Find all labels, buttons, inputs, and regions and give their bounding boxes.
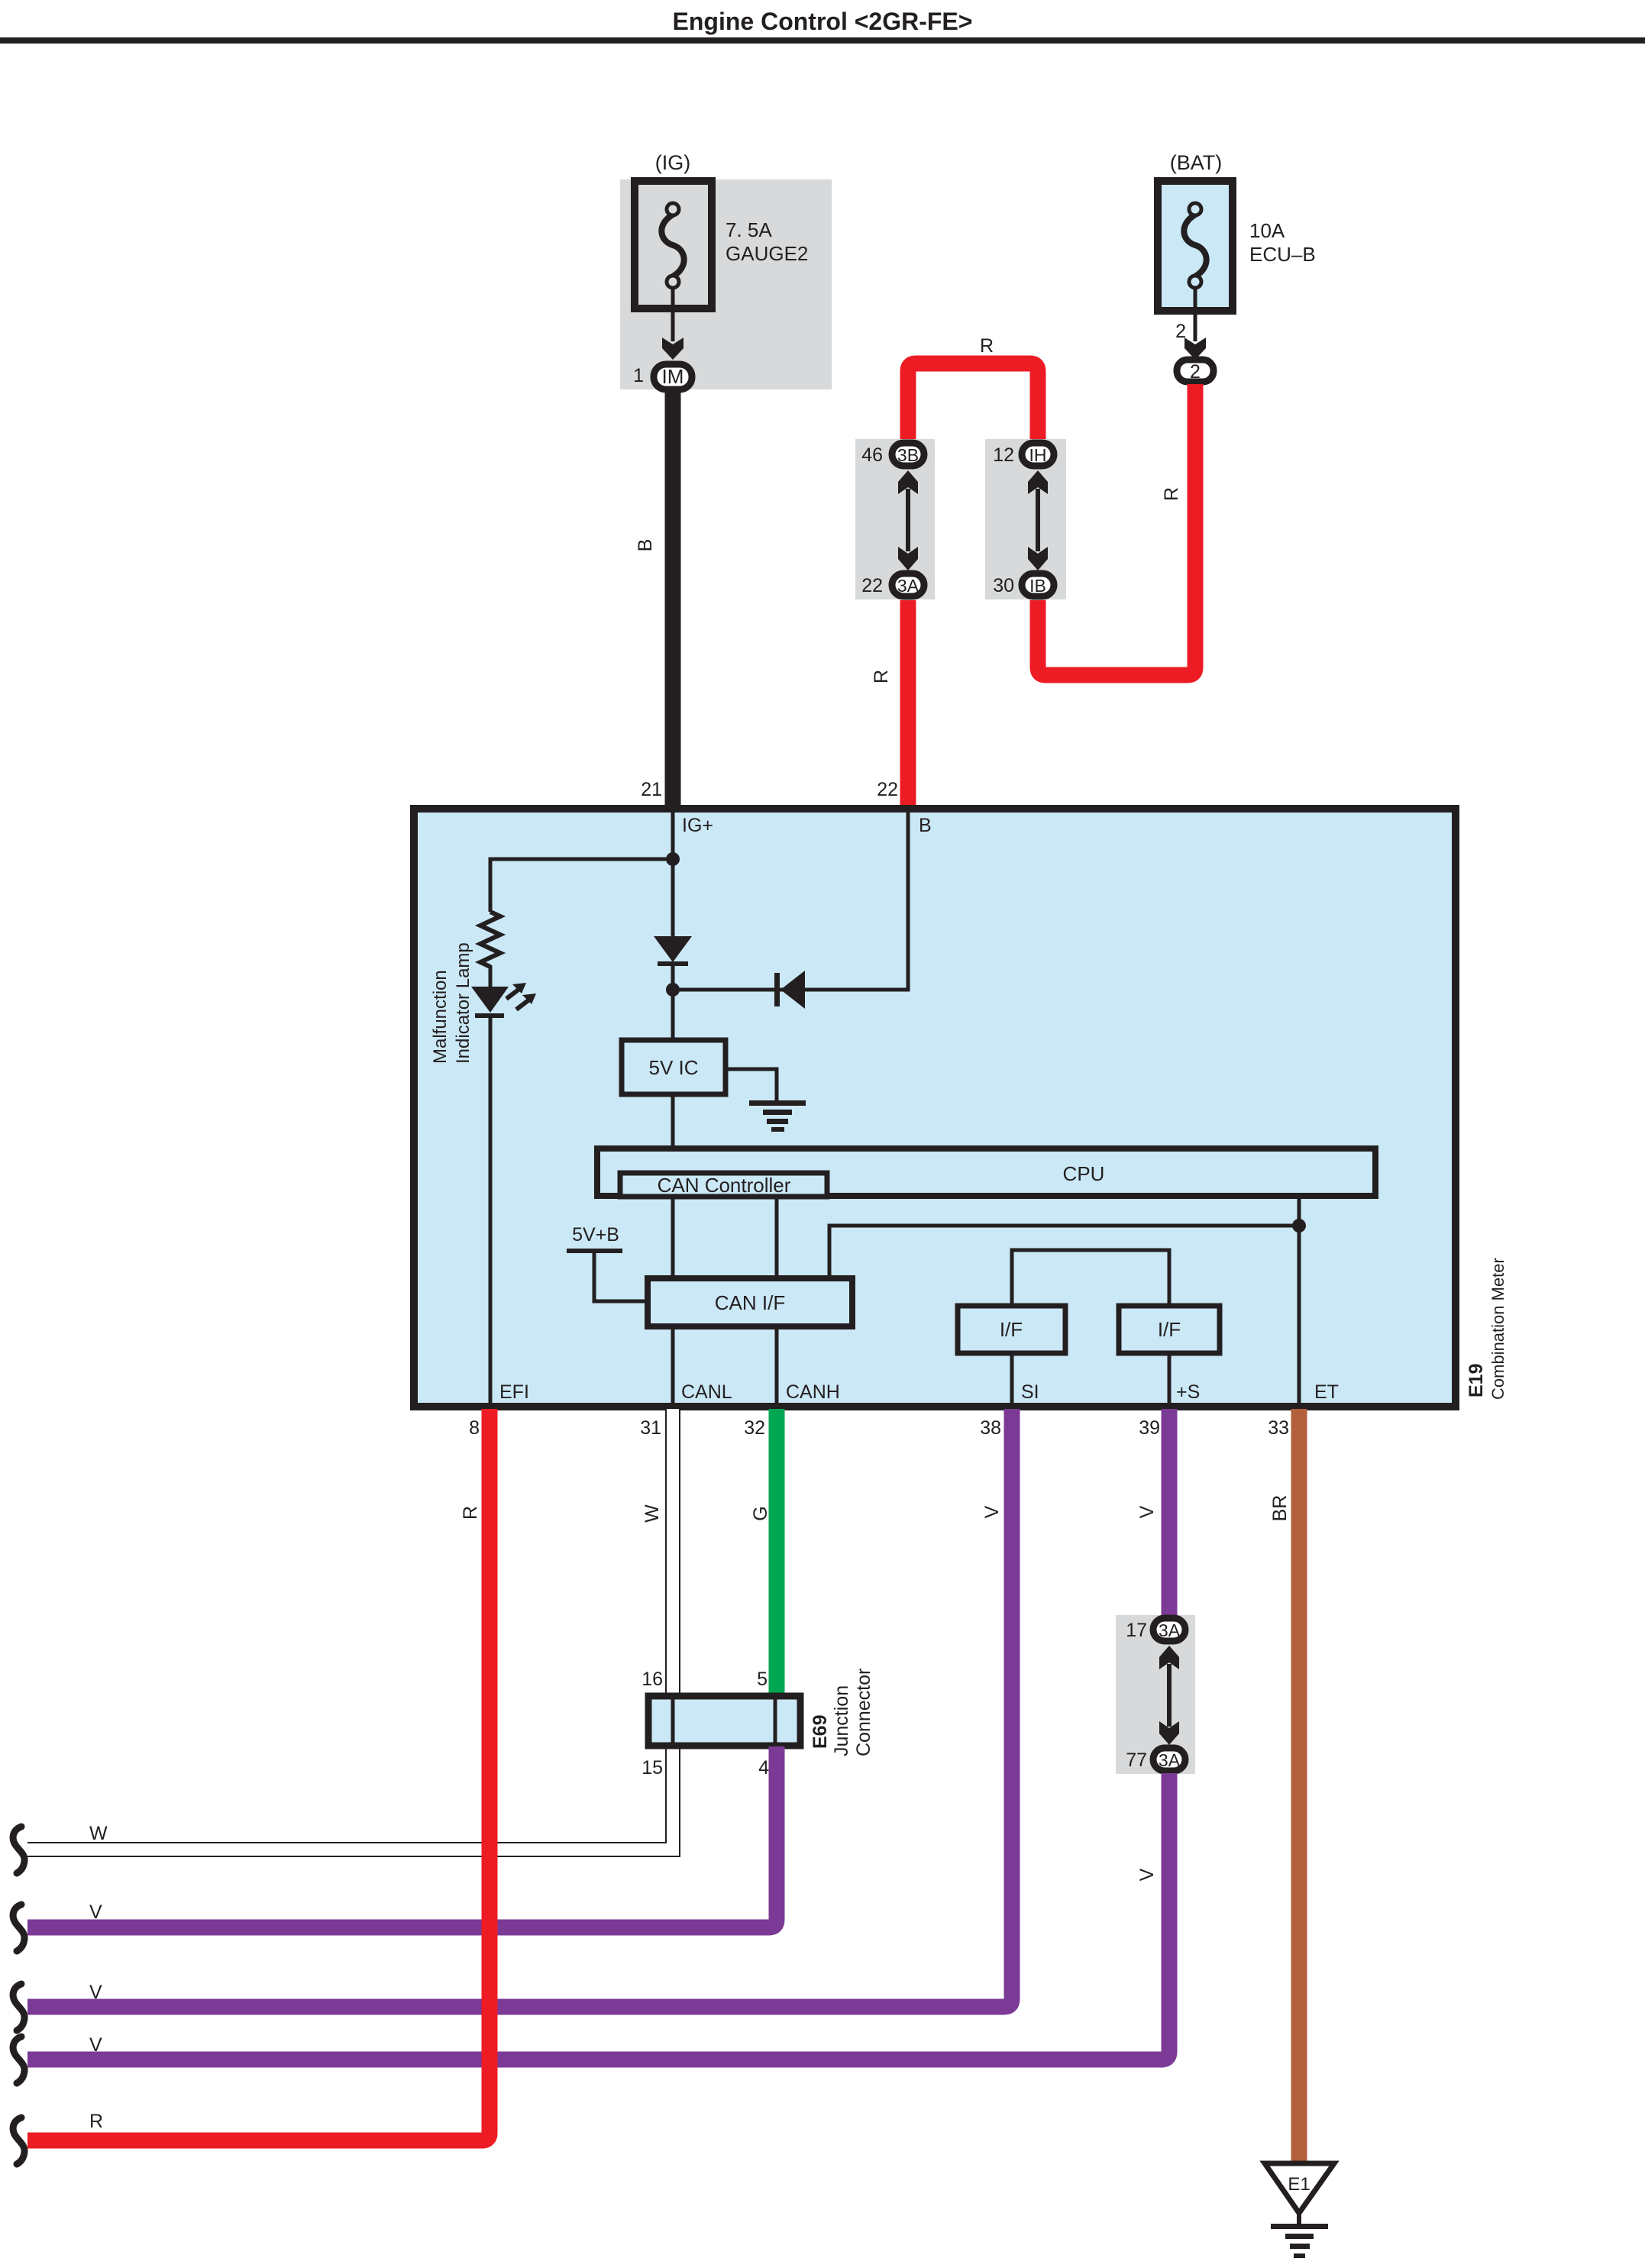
internal wire ET vertical	[1298, 1196, 1301, 1405]
wire V from 3A lower down and left	[27, 1773, 1169, 2060]
svg-text:22: 22	[877, 779, 898, 800]
svg-text:B: B	[635, 539, 656, 552]
wire color label BR	[1269, 1495, 1291, 1522]
svg-text:E69: E69	[810, 1715, 831, 1749]
resistor (MIL)	[480, 912, 500, 967]
wire D1 to node	[671, 962, 675, 1042]
pin 12 label	[993, 444, 1014, 466]
svg-text:3A: 3A	[1159, 1620, 1181, 1640]
label 5V+B	[572, 1224, 619, 1245]
wire V from pin 39 to connector 3A	[1162, 1409, 1178, 1616]
svg-text:22: 22	[861, 575, 883, 596]
I/F box left	[958, 1306, 1065, 1353]
svg-text:2: 2	[1175, 321, 1186, 342]
break symbol wire W	[13, 1827, 24, 1873]
svg-text:5V IC: 5V IC	[648, 1056, 698, 1079]
pin 46 label	[861, 444, 883, 466]
label Combination Meter	[1488, 1258, 1508, 1400]
svg-text:V: V	[1136, 1505, 1158, 1518]
connector oval 3A	[892, 573, 924, 596]
svg-text:7. 5A: 7. 5A	[726, 218, 772, 241]
svg-text:Combination Meter: Combination Meter	[1488, 1258, 1508, 1400]
svg-text:+S: +S	[1176, 1381, 1200, 1403]
svg-text:V: V	[89, 2034, 102, 2056]
ground E1 symbol	[1265, 2163, 1334, 2258]
arrow down above 3A	[898, 547, 918, 570]
wire from fuse GAUGE2 to connector IM	[671, 287, 675, 341]
fuse GAUGE2 box	[635, 181, 712, 309]
connector oval 2	[1177, 360, 1214, 383]
wire B (black) from IM to pin 21	[665, 388, 681, 811]
wire color label V (bottom 1)	[89, 1901, 102, 1923]
fuse ECU-B box	[1158, 181, 1233, 311]
connector block 3A/3A gray background	[1116, 1615, 1195, 1774]
break symbol wire V3	[13, 2037, 24, 2083]
connector designation E19	[1466, 1364, 1487, 1397]
svg-text:V: V	[1136, 1868, 1158, 1881]
svg-text:Junction: Junction	[831, 1685, 852, 1756]
svg-text:E1: E1	[1288, 2174, 1310, 2195]
svg-text:5V+B: 5V+B	[572, 1224, 619, 1245]
title underline rule	[0, 37, 1645, 44]
svg-text:5: 5	[757, 1669, 768, 1690]
svg-text:77: 77	[1126, 1749, 1147, 1771]
wire CANH below CAN I/F	[775, 1326, 779, 1405]
wire color label R (bottom)	[89, 2111, 103, 2132]
svg-text:GAUGE2: GAUGE2	[726, 242, 808, 265]
wire color label V (bottom 2)	[89, 1982, 102, 2003]
svg-text:R: R	[980, 335, 994, 357]
bridge wire over I/F boxes	[1012, 1250, 1169, 1306]
wire color label W (pin 31)	[642, 1504, 663, 1523]
wire resistor to LED	[489, 965, 493, 988]
svg-text:R: R	[871, 670, 892, 683]
wire color label V (bottom 3)	[89, 2034, 102, 2056]
pin 77 label	[1126, 1749, 1147, 1771]
wire color label R (top horizontal)	[980, 335, 994, 357]
wire CAN I/F to ET line	[829, 1226, 1299, 1275]
arrow up below 3B	[898, 470, 918, 494]
svg-text:31: 31	[640, 1417, 661, 1439]
wire color label W (bottom)	[89, 1823, 108, 1844]
connector oval 3A lower	[1153, 1748, 1185, 1771]
svg-text:46: 46	[861, 444, 883, 466]
LED malfunction indicator lamp	[471, 983, 536, 1018]
svg-text:8: 8	[469, 1417, 480, 1439]
wire 5V IC to CPU	[671, 1094, 675, 1149]
wire G from pin 32 to E69	[769, 1409, 785, 1697]
svg-text:CAN I/F: CAN I/F	[715, 1291, 785, 1314]
svg-text:12: 12	[993, 444, 1014, 466]
terminal name CANH	[786, 1381, 840, 1403]
terminal name B	[919, 815, 932, 836]
svg-text:ET: ET	[1314, 1381, 1339, 1403]
diode D2 on B line	[774, 971, 805, 1009]
internal wire IG+ vertical	[671, 813, 675, 938]
svg-text:4: 4	[758, 1757, 769, 1779]
wire color label V (pin 39)	[1136, 1505, 1158, 1518]
svg-text:CANH: CANH	[786, 1381, 840, 1403]
connector oval IM	[654, 364, 692, 389]
label Malfunction Indicator Lamp	[430, 942, 473, 1064]
wire color label R (pin 8)	[460, 1506, 481, 1520]
svg-text:CAN Controller: CAN Controller	[658, 1174, 791, 1197]
pin number 22	[877, 779, 898, 800]
svg-text:V: V	[89, 1901, 102, 1923]
svg-text:17: 17	[1126, 1620, 1147, 1641]
wire color label G (pin 32)	[750, 1506, 771, 1520]
wire R from 3A down to pin 22	[900, 600, 916, 811]
CPU box	[597, 1149, 1375, 1196]
wire W (white) from pin 31 through E69 down and left	[27, 1409, 673, 1850]
arrow down above 3A lower	[1159, 1721, 1179, 1745]
svg-text:IH: IH	[1029, 445, 1047, 465]
svg-text:16: 16	[642, 1669, 663, 1690]
wire V from E69 pin 4 down and left	[27, 1746, 777, 1927]
connector oval IH	[1022, 443, 1054, 466]
svg-text:1: 1	[633, 365, 644, 386]
connector oval 3A upper	[1153, 1618, 1185, 1641]
pin number 33	[1268, 1417, 1289, 1439]
connector oval 3B	[892, 443, 924, 466]
break symbol wire R	[13, 2118, 24, 2164]
svg-text:3B: 3B	[897, 445, 919, 465]
terminal name EFI	[499, 1381, 529, 1403]
junction connector E69 box	[648, 1695, 800, 1746]
wire color label R (3A vertical)	[871, 670, 892, 683]
label Junction Connector	[831, 1669, 874, 1756]
internal ground symbol	[749, 1100, 806, 1132]
svg-text:Engine Control <2GR-FE>: Engine Control <2GR-FE>	[673, 8, 973, 35]
pin 30 label	[993, 575, 1014, 596]
link line between IH and IB	[1036, 489, 1040, 551]
fuse ECU-B element symbol	[1184, 203, 1206, 288]
svg-text:W: W	[642, 1504, 663, 1523]
svg-text:CANL: CANL	[681, 1381, 732, 1403]
5V+B supply bar and wire	[567, 1249, 646, 1301]
wire CAN controller to CAN I/F (CANL)	[671, 1199, 675, 1278]
svg-text:15: 15	[642, 1757, 663, 1779]
svg-text:CPU: CPU	[1063, 1162, 1105, 1185]
node dot on IG+ line	[666, 852, 680, 866]
svg-text:38: 38	[980, 1417, 1001, 1439]
svg-text:3A: 3A	[897, 576, 919, 596]
svg-text:33: 33	[1268, 1417, 1289, 1439]
pin number 31	[640, 1417, 661, 1439]
connector arrow into IM	[662, 338, 684, 360]
CAN Controller box	[620, 1173, 827, 1197]
svg-text:10A: 10A	[1249, 219, 1285, 242]
arrow down above IB	[1028, 547, 1048, 570]
connector block 3B/3A gray background	[855, 439, 935, 599]
svg-text:39: 39	[1139, 1417, 1160, 1439]
wire CANL below CAN I/F	[671, 1326, 675, 1405]
wire color label V (pin 38)	[981, 1505, 1003, 1518]
label (IG)	[655, 151, 691, 174]
wire R loop from IH up-over to 3B	[908, 363, 1038, 441]
connector block IH/IB gray background	[985, 439, 1066, 599]
node dot below D1	[666, 983, 680, 997]
connector oval IB	[1022, 573, 1054, 596]
terminal name CANL	[681, 1381, 732, 1403]
svg-text:V: V	[89, 1982, 102, 2003]
pin 16 label	[642, 1669, 663, 1690]
pin number 8	[469, 1417, 480, 1439]
pin number 38	[980, 1417, 1001, 1439]
link line between 3B and 3A	[906, 489, 910, 551]
svg-text:I/F: I/F	[1000, 1318, 1023, 1341]
svg-text:I/F: I/F	[1158, 1318, 1181, 1341]
pin 17 label	[1126, 1620, 1147, 1641]
svg-text:30: 30	[993, 575, 1014, 596]
pin 1 label	[633, 365, 644, 386]
svg-text:SI: SI	[1021, 1381, 1039, 1403]
terminal name SI	[1021, 1381, 1039, 1403]
terminal name ET	[1314, 1381, 1339, 1403]
svg-text:Connector: Connector	[853, 1669, 874, 1756]
svg-text:3A: 3A	[1159, 1750, 1181, 1770]
I/F box right	[1119, 1306, 1220, 1353]
connector designation E69	[810, 1715, 831, 1749]
pin number 32	[744, 1417, 765, 1439]
arrow up below 3A upper	[1159, 1646, 1179, 1669]
wire BR from pin 33 to ground E1	[1291, 1409, 1307, 2163]
terminal name +S	[1176, 1381, 1200, 1403]
svg-text:IG+: IG+	[682, 815, 713, 836]
wire color label V (below 3A)	[1136, 1868, 1158, 1881]
pin 4 label	[758, 1757, 769, 1779]
connector arrow into oval 2	[1184, 338, 1206, 360]
pin 5 label	[757, 1669, 768, 1690]
diode D1 on IG+ line	[654, 936, 692, 966]
svg-text:B: B	[919, 815, 932, 836]
wire 5V IC to internal ground	[726, 1069, 777, 1103]
svg-text:32: 32	[744, 1417, 765, 1439]
wire R from pin 8 down and left	[27, 1409, 490, 2140]
svg-text:IB: IB	[1029, 576, 1046, 596]
pin number 39	[1139, 1417, 1160, 1439]
wire color label B	[635, 539, 656, 552]
svg-text:(IG): (IG)	[655, 151, 691, 174]
svg-text:G: G	[750, 1506, 771, 1520]
link line between 3A ovals	[1167, 1664, 1172, 1727]
wire SI below I/F	[1010, 1353, 1014, 1405]
title: Engine Control <2GR-FE>	[673, 8, 973, 35]
svg-text:R: R	[1161, 487, 1182, 501]
wire +S below I/F	[1168, 1353, 1172, 1405]
svg-text:R: R	[460, 1506, 481, 1520]
CAN I/F box	[648, 1278, 852, 1326]
fuse GAUGE2 element symbol	[661, 203, 684, 288]
wire R from fuse ECU-B down to IB loop	[1038, 384, 1195, 675]
wire R pin 8 overpass segment	[27, 1817, 490, 2140]
svg-text:R: R	[89, 2111, 103, 2132]
combination meter box E19	[414, 809, 1456, 1407]
break symbol wire V1	[13, 1905, 24, 1951]
fuse value label 10A ECU-B	[1249, 219, 1316, 266]
wire V from pin 38 down and left	[27, 1409, 1012, 2007]
junction block gray background (IG fuse area)	[620, 179, 832, 389]
arrow up below IH	[1028, 470, 1048, 494]
svg-text:2: 2	[1190, 361, 1201, 383]
svg-text:EFI: EFI	[499, 1381, 529, 1403]
junction dot on ET line	[1292, 1219, 1306, 1233]
svg-text:(BAT): (BAT)	[1170, 151, 1223, 174]
svg-text:IM: IM	[662, 365, 684, 388]
pin number 21	[641, 779, 662, 800]
pin 2 label	[1175, 321, 1186, 342]
svg-text:Malfunction: Malfunction	[430, 970, 451, 1064]
svg-text:Indicator Lamp: Indicator Lamp	[453, 942, 473, 1064]
svg-text:21: 21	[641, 779, 662, 800]
svg-text:V: V	[981, 1505, 1003, 1518]
wire LED to EFI pin	[489, 1018, 493, 1405]
wire color label R (right vertical)	[1161, 487, 1182, 501]
fuse value label 7.5A GAUGE2	[726, 218, 808, 265]
break symbol wire V2	[13, 1984, 24, 2031]
svg-text:BR: BR	[1269, 1495, 1291, 1522]
internal wire B vertical	[673, 813, 908, 990]
label (BAT)	[1170, 151, 1223, 174]
wire from node to MIL branch	[490, 859, 673, 912]
svg-text:ECU–B: ECU–B	[1249, 243, 1316, 266]
pin 15 label	[642, 1757, 663, 1779]
svg-text:W: W	[89, 1823, 108, 1844]
svg-text:E19: E19	[1466, 1364, 1487, 1397]
wire CAN controller to CAN I/F (CANH)	[775, 1199, 779, 1278]
pin 22 label (3A)	[861, 575, 883, 596]
terminal name IG+	[682, 815, 713, 836]
5V IC box	[622, 1040, 726, 1094]
wire from fuse ECU-B to connector 2	[1194, 287, 1197, 341]
